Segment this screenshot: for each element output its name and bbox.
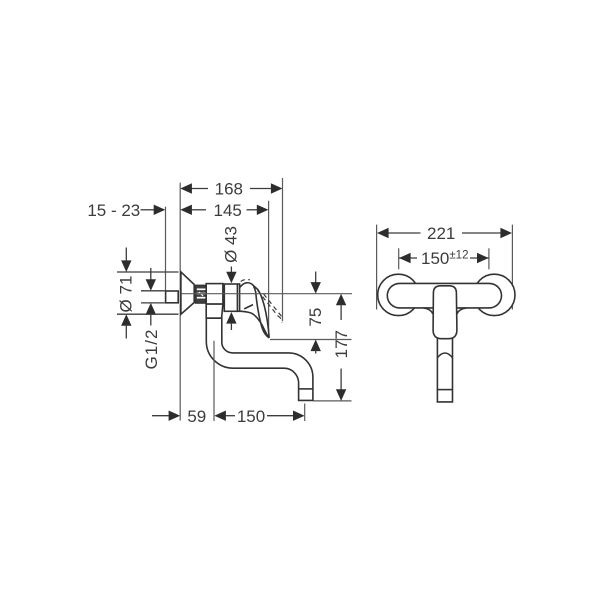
raised handle tip extension line: [282, 178, 284, 321]
svg-text:G1/2: G1/2: [142, 329, 161, 370]
svg-text:59: 59: [187, 407, 206, 426]
handle raised position (dashed): [241, 279, 250, 281]
union nut: [206, 284, 223, 305]
left escutcheon circle: [378, 274, 419, 315]
dimension 168: [180, 180, 282, 199]
handle lever front edge (side view): [240, 283, 270, 338]
cartridge ring (diameter 43): [224, 284, 239, 311]
svg-text:221: 221: [427, 224, 455, 243]
svg-text:Ø 43: Ø 43: [221, 226, 240, 263]
dimension 59 and 150 (bottom): [152, 407, 305, 426]
svg-text:15 - 23: 15 - 23: [87, 201, 140, 220]
handle inner edge mark: [244, 305, 253, 309]
outlet tube (front): [437, 337, 452, 402]
handle lever back edge: [254, 286, 270, 337]
right fillet capsule to handle: [457, 308, 466, 314]
wall escutcheon (cone): [181, 272, 194, 314]
dimension 221: [377, 224, 513, 309]
spout axis extension line: [213, 341, 215, 421]
aerator cap line (front): [437, 389, 452, 391]
left fillet capsule to handle: [424, 308, 433, 314]
right escutcheon circle: [474, 274, 515, 315]
outlet axis extension line: [304, 404, 306, 422]
body section under nut: [206, 304, 223, 318]
dimension 150 +-12: [399, 248, 489, 269]
svg-text:150: 150: [237, 407, 265, 426]
dimension diameter 71: [117, 248, 179, 339]
75mm bottom extension line: [270, 339, 352, 341]
wall face extension line: [179, 183, 181, 421]
threaded connector: [195, 285, 205, 303]
aerator cap line: [299, 388, 313, 390]
svg-text:75: 75: [306, 308, 325, 327]
handle tip extension line: [268, 201, 270, 338]
dimension 75: [306, 272, 325, 354]
177mm bottom extension line: [313, 400, 352, 402]
spout: [206, 318, 313, 400]
supply nipple G1/2: [166, 291, 179, 303]
svg-text:168: 168: [215, 180, 243, 199]
dimension G1/2: [141, 268, 165, 369]
supply stub extension line: [165, 207, 167, 291]
dome inside tube: [437, 353, 452, 358]
centerline of faucet body: [181, 293, 352, 295]
body underside sweeping to handle tip: [240, 311, 270, 338]
dimension 177: [332, 294, 351, 401]
handle (front view): [433, 286, 457, 339]
body bar (capsule): [387, 283, 501, 308]
svg-text:145: 145: [214, 201, 242, 220]
dimension 145: [180, 201, 268, 220]
svg-text:Ø 71: Ø 71: [117, 276, 136, 313]
dimension 15 - 23: [87, 201, 165, 220]
svg-text:177: 177: [332, 330, 351, 358]
dimension diameter 43: [221, 226, 240, 330]
